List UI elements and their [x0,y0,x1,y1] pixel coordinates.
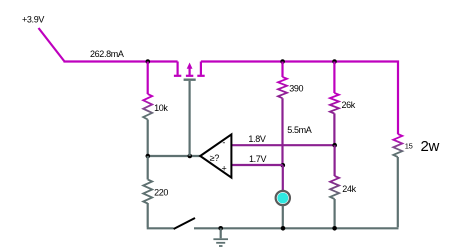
svg-text:24k: 24k [342,184,356,194]
wire 1.8V [232,144,336,146]
wire output node horizontal [148,155,200,157]
wire 220 bottom to switch [147,203,174,228]
junction 1.7V node [281,163,286,168]
svg-text:1.7V: 1.7V [249,154,266,164]
wire 10k bottom to output node [147,120,149,157]
resistor 390 [278,77,287,98]
wire LED bottom [282,206,284,229]
wire output node down [147,156,149,180]
wire bottom rail [194,227,399,229]
junction top rail / 390 [280,59,285,64]
junction gate node [188,154,193,159]
svg-text:5.5mA: 5.5mA [287,125,312,135]
wire 15 bottom [397,157,399,227]
junction 1.8V node [332,143,337,148]
wire 10k top [147,62,149,95]
svg-text:+: + [222,163,227,173]
wire supply diagonal [39,28,65,62]
resistor 10k [143,94,152,119]
junction top rail / 10k [146,59,151,64]
svg-text:1.8V: 1.8V [248,134,265,144]
svg-text:262.8mA: 262.8mA [90,49,124,59]
junction 24k / bottom rail [332,226,337,231]
svg-text:15: 15 [405,142,413,151]
wire top rail right [201,62,398,135]
switch lever [174,218,195,229]
svg-text:2w: 2w [421,138,440,155]
svg-text:≥?: ≥? [210,153,220,163]
wire top rail left [64,60,178,62]
junction LED / bottom rail [281,226,286,231]
wire LED top [282,165,284,190]
wire 1.7V [232,164,283,166]
transistor Q1 PMOS [174,62,205,157]
wire 26k top [333,62,335,94]
junction ground [218,226,223,231]
resistor 24k [330,176,339,199]
svg-text:390: 390 [289,83,303,93]
wire 24k bottom [334,199,336,228]
resistor 15 [393,134,402,157]
ground [213,228,228,246]
resistor 220 [143,180,152,204]
junction top rail / 26k [332,59,337,64]
svg-text:-: - [222,137,225,147]
wire 390 bottom to LED node [281,98,283,165]
junction output node left [146,154,151,159]
svg-text:26k: 26k [342,100,356,110]
LED indicator [276,191,290,205]
resistor 26k [330,93,339,114]
op-amp comparator [200,134,231,177]
wire 24k top [334,145,336,176]
svg-text:+3.9V: +3.9V [22,15,44,25]
wire 390 top [281,62,283,78]
svg-text:10k: 10k [154,103,168,113]
svg-text:220: 220 [154,187,168,197]
wire 26k bottom to 1.8V node [333,113,335,145]
